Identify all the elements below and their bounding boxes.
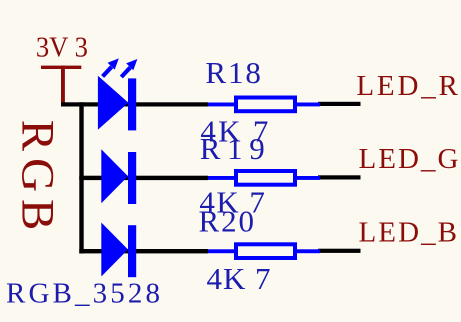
power stem wire bbox=[61, 66, 65, 104]
svg-text:4K 7: 4K 7 bbox=[207, 261, 271, 296]
wire row1 right stub bbox=[318, 102, 361, 106]
svg-text:RGB_3528: RGB_3528 bbox=[6, 277, 160, 309]
resistor R20 body bbox=[236, 244, 295, 258]
wire row3 horizontal bbox=[79, 249, 208, 253]
power net 3V3 label bbox=[36, 31, 88, 63]
LED D-R cathode bar bbox=[128, 78, 136, 130]
svg-text:LED_G: LED_G bbox=[359, 143, 459, 175]
svg-text:LED_B: LED_B bbox=[359, 216, 458, 248]
LED D-G triangle bbox=[101, 149, 128, 203]
resistor R19 leads bbox=[208, 176, 320, 180]
resistor R19 body bbox=[236, 171, 295, 185]
LED D-B cathode bar bbox=[128, 225, 136, 277]
LED D-G cathode bar bbox=[128, 152, 136, 204]
power bar symbol bbox=[41, 66, 81, 69]
svg-text:R19: R19 bbox=[200, 131, 265, 166]
svg-text:3V 3: 3V 3 bbox=[36, 31, 88, 63]
LED D-R emission arrow 1 bbox=[103, 67, 112, 77]
LED D-R triangle bbox=[98, 76, 128, 130]
svg-text:LED_R: LED_R bbox=[356, 70, 458, 102]
wire row3 right stub bbox=[318, 249, 361, 253]
LED D-R emission arrow 2 bbox=[121, 67, 130, 77]
LED D-B triangle bbox=[101, 223, 128, 277]
svg-text:R18: R18 bbox=[205, 55, 261, 90]
svg-text:RGB: RGB bbox=[11, 120, 63, 231]
wire row2 horizontal bbox=[79, 176, 208, 180]
svg-text:R20: R20 bbox=[199, 203, 255, 238]
resistor R18 leads bbox=[208, 103, 320, 107]
wire row2 right stub bbox=[318, 175, 361, 179]
wire row1 horizontal bbox=[61, 102, 208, 106]
resistor R20 leads bbox=[208, 249, 320, 253]
wire vertical bus bbox=[79, 102, 83, 253]
resistor R18 body bbox=[236, 98, 295, 112]
